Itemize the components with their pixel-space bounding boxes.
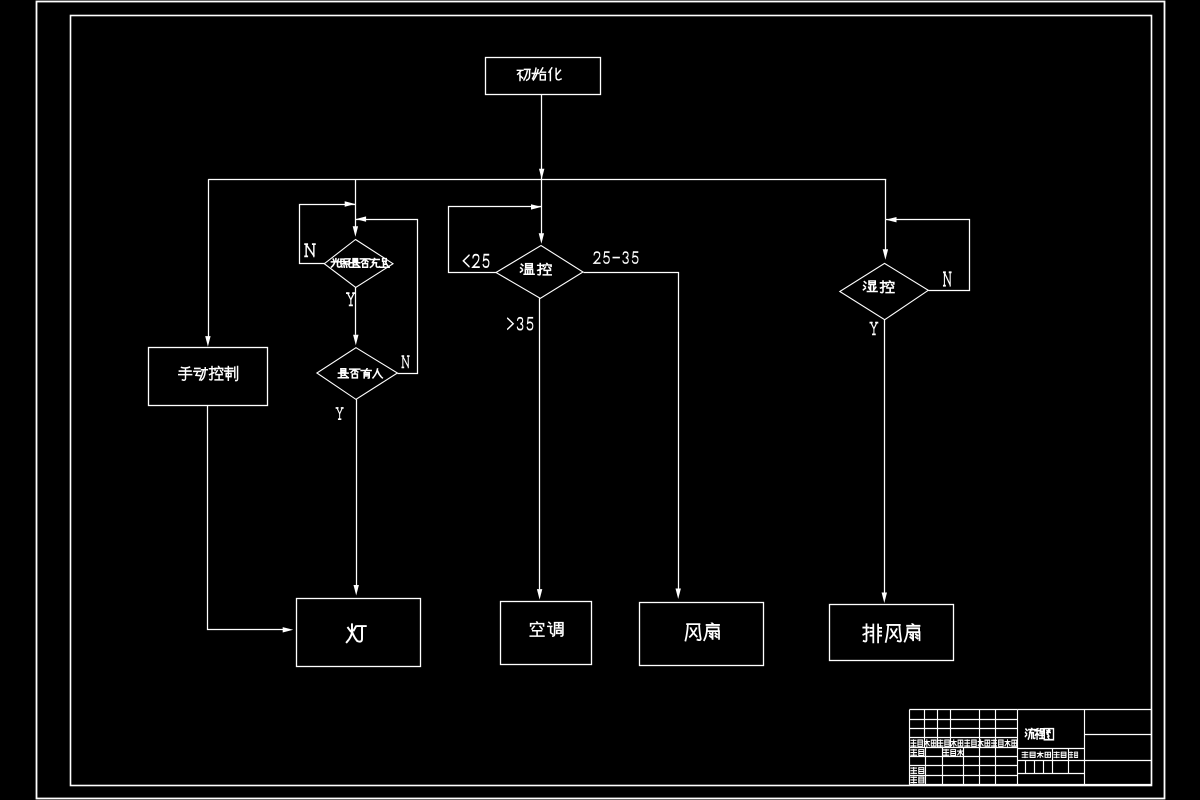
loop wire 湿控 N return (886, 217, 970, 291)
micro text 标记处数分区更改文件号签名年月日 (911, 740, 1017, 747)
micro text 工艺 (911, 777, 924, 783)
wire 温控 greater-35 to 空调 (537, 298, 542, 599)
micro text 重量 (1054, 752, 1066, 758)
decision diamond 温控 (496, 246, 583, 299)
process box 空调 (501, 602, 592, 665)
wire 初始化 to main bus (539, 95, 544, 180)
decision diamond 湿控 (840, 263, 929, 319)
label Y below 是否有人 diamond (336, 408, 343, 419)
wire bus down to 手动控制 (205, 179, 210, 346)
title block name section grid (1018, 710, 1152, 785)
label Y below 湿控 diamond (870, 323, 878, 335)
loop wire 是否有人 N return (356, 216, 418, 373)
wire bus down to 光照 diamond (353, 179, 358, 237)
wire 湿控 Y to 排风扇 (882, 320, 887, 603)
process box 初始化 (486, 58, 601, 95)
micro text 阶段标记 (1022, 752, 1050, 758)
micro text 审核 (911, 767, 924, 773)
wire 温控 25-35 to 风扇 (584, 273, 681, 600)
decision diamond 光照是否充足 (324, 240, 393, 288)
micro text 标准化 (943, 749, 963, 756)
label Y below 光照 diamond (346, 293, 355, 305)
label >35 (508, 318, 533, 330)
wire bus down to 湿控 diamond (885, 179, 887, 220)
label N at 光照 diamond (305, 244, 315, 256)
wire bus down to 温控 diamond (539, 179, 544, 244)
process box 排风扇 (830, 605, 954, 661)
process box 手动控制 (149, 348, 268, 406)
title text 流程图 (1025, 728, 1053, 740)
label N at 是否有人 diamond (402, 356, 409, 367)
process box 灯 (297, 599, 421, 667)
process box 风扇 (640, 603, 764, 666)
loop wire 温控 less-25 return (449, 204, 542, 272)
label <25 (463, 255, 489, 267)
main horizontal bus wire (208, 179, 886, 181)
label 25-35 (594, 252, 638, 263)
loop wire 光照 N return (300, 201, 356, 263)
wire 手动控制 to 灯 (208, 406, 294, 633)
title block revision table grid (909, 710, 1017, 785)
micro text 设计 (911, 749, 924, 755)
wire 光照 Y to 是否有人 (353, 288, 358, 346)
wire 湿控 approach with arrow (883, 220, 888, 260)
decision diamond 是否有人 (317, 348, 398, 400)
micro text 比例 (1069, 752, 1077, 758)
label N at 湿控 diamond (944, 272, 952, 285)
wire 是否有人 Y to 灯 (354, 399, 359, 595)
